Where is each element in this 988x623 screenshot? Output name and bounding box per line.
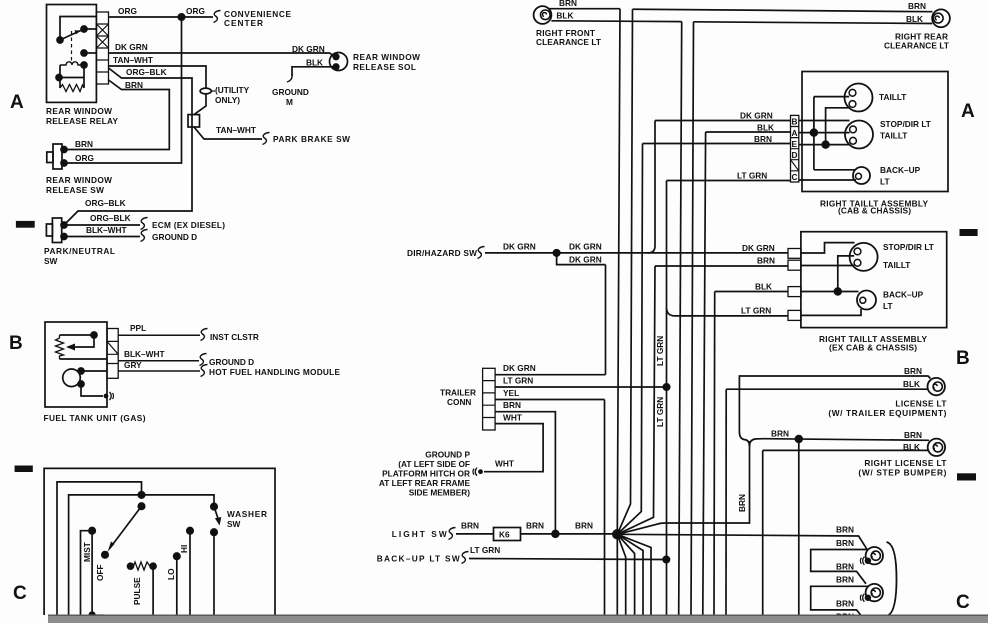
wire LT GRN vertical — [666, 181, 668, 616]
license lt bulb — [928, 378, 945, 395]
svg-text:BRN: BRN — [771, 429, 789, 439]
svg-text:GRY: GRY — [124, 360, 142, 370]
wire TAN-WHT to park brake sw — [194, 127, 262, 139]
wire DK GRN relay to release sol — [109, 52, 331, 54]
svg-text:LT GRN: LT GRN — [503, 376, 533, 386]
release sw pin ORG — [61, 160, 67, 166]
svg-text:SIDE MEMBER): SIDE MEMBER) — [409, 488, 471, 498]
svg-text:HI: HI — [179, 545, 189, 553]
wire BRN to pin E — [643, 143, 791, 145]
svg-text:LO: LO — [166, 568, 176, 580]
wire LT GRN trailer — [495, 386, 666, 388]
MIST lower wire — [92, 531, 104, 616]
relay connector strip — [96, 12, 108, 84]
svg-text:BRN: BRN — [836, 538, 854, 548]
svg-text:LT GRN: LT GRN — [737, 170, 767, 180]
svg-text:GROUND D: GROUND D — [152, 232, 197, 242]
rear window release sol bulb — [330, 53, 348, 71]
svg-text:ORG: ORG — [118, 6, 137, 16]
svg-text:LT GRN: LT GRN — [470, 545, 500, 555]
fuel tank unit box — [45, 322, 107, 407]
wire WHT trailer — [484, 424, 543, 472]
svg-text:LT GRN: LT GRN — [741, 305, 771, 315]
svg-text:(UTILITY: (UTILITY — [215, 85, 250, 95]
taillt bulb top — [845, 84, 873, 112]
wire BLK branch to bulb common — [838, 256, 854, 292]
wire PPL to inst clstr — [118, 334, 200, 336]
svg-text:BLK: BLK — [903, 442, 920, 452]
svg-text:ORG–BLK: ORG–BLK — [85, 198, 126, 208]
svg-text:CLEARANCE LT: CLEARANCE LT — [536, 37, 601, 47]
svg-text:REAR WINDOW: REAR WINDOW — [46, 175, 112, 185]
svg-text:DK GRN: DK GRN — [292, 44, 325, 54]
relay coil pin dot — [81, 50, 96, 56]
svg-text:TAN–WHT: TAN–WHT — [216, 125, 256, 135]
svg-text:BACK–UP LT SW: BACK–UP LT SW — [377, 554, 460, 564]
junction E — [822, 141, 829, 148]
wire BLK-WHT to ground D — [64, 236, 140, 238]
svg-text:BRN: BRN — [908, 1, 926, 11]
wire BLK license vertical — [725, 389, 727, 615]
svg-text:TAILLT: TAILLT — [879, 92, 906, 102]
svg-text:BRN: BRN — [836, 598, 854, 608]
utility only oval connector — [200, 88, 211, 94]
pump pin GRY — [78, 368, 84, 374]
junction LT GRN backup sw — [663, 556, 669, 562]
fuel tank connector strip — [107, 329, 118, 379]
svg-text:C: C — [792, 172, 798, 182]
cab connector strip — [791, 115, 799, 182]
svg-text:BLK: BLK — [903, 379, 920, 389]
svg-text:FUEL TANK UNIT (GAS): FUEL TANK UNIT (GAS) — [44, 413, 146, 423]
svg-text:D: D — [792, 150, 798, 160]
svg-text:DK GRN: DK GRN — [742, 243, 775, 253]
svg-text:BRN: BRN — [575, 521, 593, 531]
svg-text:ONLY): ONLY) — [215, 95, 240, 105]
contact MIST — [89, 528, 95, 534]
svg-text:ORG–BLK: ORG–BLK — [90, 213, 131, 223]
wire B to stop bulb — [799, 120, 850, 122]
svg-text:B: B — [9, 333, 23, 354]
wire A branch to taillt and backup — [814, 97, 856, 170]
splice stub down 2 — [617, 534, 634, 615]
junction BRN trailer feed — [552, 531, 559, 538]
svg-text:CLEARANCE LT: CLEARANCE LT — [884, 41, 949, 51]
wire BRN light sw — [456, 533, 494, 535]
right rear clearance lt bulb — [932, 9, 950, 27]
contact HI — [187, 528, 193, 534]
brace right of marker lamps — [887, 542, 897, 616]
wire ORG-BLK to ECM — [64, 224, 140, 226]
splice stub down 4 — [617, 534, 651, 615]
svg-text:BLK–WHT: BLK–WHT — [124, 349, 165, 359]
svg-text:BRN: BRN — [503, 400, 521, 410]
wire BRN bulb2 daisy chain — [811, 586, 868, 618]
svg-text:DK GRN: DK GRN — [740, 110, 773, 120]
svg-text:BLK: BLK — [906, 14, 923, 24]
connector ground D fuel — [200, 354, 207, 366]
connector convenience center — [214, 11, 221, 23]
rear window release sw body — [53, 144, 62, 169]
connector hot fuel module — [201, 365, 208, 377]
wire E to taillt filament — [799, 144, 850, 146]
svg-text:(EX CAB & CHASSIS): (EX CAB & CHASSIS) — [829, 343, 917, 353]
svg-text:BLK: BLK — [755, 282, 772, 292]
svg-text:RELEASE SOL: RELEASE SOL — [353, 62, 416, 72]
wire DK GRN into sol — [330, 53, 334, 57]
svg-text:M: M — [286, 97, 293, 107]
svg-text:SW: SW — [44, 256, 58, 266]
svg-text:LT: LT — [883, 301, 893, 311]
wire BRN K6 to splice — [521, 533, 618, 535]
margin bar left 1 — [16, 221, 35, 228]
wire BRN splice to marker bulb 1 — [617, 534, 867, 550]
stop/dir taillt bulb — [845, 121, 873, 149]
wire DK GRN dir/hazard vertical to trailer — [605, 265, 607, 375]
svg-text:GROUND D: GROUND D — [209, 357, 254, 367]
contact OFF — [102, 552, 108, 558]
wire DK GRN branch to trailer — [557, 253, 606, 265]
wire ORG-BLK relay down to park/neutral sw — [64, 68, 192, 225]
connector ground D — [141, 230, 148, 242]
svg-text:C: C — [13, 583, 27, 604]
wire LT GRN to pin C — [667, 180, 791, 182]
junction DK GRN — [553, 250, 559, 256]
wire TAN-WHT relay down through utility connector — [109, 66, 207, 115]
svg-text:TAN–WHT: TAN–WHT — [113, 55, 153, 65]
svg-text:A: A — [792, 128, 798, 138]
svg-text:BRN: BRN — [836, 561, 854, 571]
ground marker 2 — [860, 594, 870, 602]
wire DK GRN inside ex cab — [801, 243, 855, 253]
wire YEL vertical — [604, 400, 606, 616]
wire BRN right license vertical — [798, 439, 800, 615]
wire BLK taillt A vertical — [703, 132, 706, 615]
svg-text:BRN: BRN — [754, 134, 772, 144]
svg-text:BRN: BRN — [461, 521, 479, 531]
wire BRN pitchfork to right license lt — [750, 439, 930, 446]
svg-text:BRN: BRN — [526, 521, 544, 531]
svg-text:(CAB & CHASSIS): (CAB & CHASSIS) — [838, 206, 911, 216]
wire BLK right license — [763, 450, 928, 615]
wire BLK rear clearance vertical — [691, 22, 694, 615]
svg-text:B: B — [792, 117, 798, 127]
washer contact — [211, 529, 217, 535]
wire LT GRN branch to ex cab assembly — [667, 308, 789, 316]
wire BRN front clearance vertical to splice — [617, 9, 620, 615]
svg-text:BACK–UP: BACK–UP — [880, 165, 921, 175]
right license lt bulb — [928, 439, 945, 456]
wire BRN relay down to release sw — [64, 80, 169, 150]
wire DK GRN taillt B vertical — [648, 121, 655, 253]
svg-text:DK GRN: DK GRN — [503, 242, 536, 252]
junction wiper pivot upper — [138, 492, 144, 498]
svg-text:BLK: BLK — [306, 58, 323, 68]
sender ground wire — [60, 358, 108, 360]
rear window release relay box — [47, 5, 97, 103]
ground P symbol — [473, 468, 483, 476]
wire BRN rear clearance — [633, 9, 933, 12]
svg-text:BRN: BRN — [75, 139, 93, 149]
svg-text:GROUND: GROUND — [272, 87, 309, 97]
svg-text:WHT: WHT — [495, 459, 514, 469]
svg-text:ORG–BLK: ORG–BLK — [126, 67, 167, 77]
svg-text:HOT FUEL HANDLING MODULE: HOT FUEL HANDLING MODULE — [209, 367, 340, 377]
svg-text:AT LEFT REAR FRAME: AT LEFT REAR FRAME — [379, 478, 471, 488]
wire LT GRN inside ex cab — [801, 309, 861, 315]
svg-text:YEL: YEL — [503, 388, 519, 398]
svg-text:DK GRN: DK GRN — [569, 242, 602, 252]
park/neutral pin BLK-WHT — [61, 234, 67, 240]
pump pin ground — [78, 381, 84, 387]
connector ECM — [141, 218, 148, 230]
svg-text:BRN: BRN — [836, 574, 854, 584]
svg-text:BRN: BRN — [904, 430, 922, 440]
svg-text:DK GRN: DK GRN — [503, 363, 536, 373]
relay armature dashed link — [71, 31, 73, 62]
svg-text:(W/ TRAILER EQUIPMENT): (W/ TRAILER EQUIPMENT) — [828, 408, 946, 418]
margin bar right 2 — [957, 473, 976, 480]
svg-text:DK GRN: DK GRN — [569, 255, 602, 265]
wire BLK front clearance vertical — [679, 22, 682, 615]
connector park brake sw — [263, 133, 270, 145]
svg-text:A: A — [10, 92, 24, 113]
wire BRN bulb1 daisy chain — [811, 550, 867, 584]
svg-text:TAILLT: TAILLT — [883, 260, 910, 270]
svg-text:C: C — [956, 592, 970, 613]
svg-text:A: A — [961, 101, 975, 122]
wire BLK to pin A — [706, 131, 791, 133]
wire ORG relay to convenience center — [109, 16, 214, 18]
right taillt assembly (ex cab) box — [801, 232, 947, 328]
wire DK GRN dir/hazard main — [485, 252, 788, 254]
wire BLK front clearance — [551, 20, 681, 23]
svg-text:WHT: WHT — [503, 412, 522, 422]
svg-text:B: B — [956, 348, 970, 369]
wire A to stop bulb — [799, 132, 850, 134]
wire BLK inside ex cab — [801, 291, 859, 293]
svg-text:INST CLSTR: INST CLSTR — [210, 332, 259, 342]
PULSE resistor — [128, 562, 157, 615]
svg-text:PARK/NEUTRAL: PARK/NEUTRAL — [44, 246, 115, 256]
wire C to backup bulb — [799, 179, 856, 181]
wire BLK rear clearance — [694, 22, 933, 24]
svg-text:GROUND P: GROUND P — [425, 450, 470, 460]
wire DK GRN to pin B — [655, 120, 791, 122]
wire BLK ex cab vertical — [713, 292, 716, 616]
wire BRN pitchfork to license lt — [739, 376, 930, 446]
wire pump to ground — [81, 384, 103, 396]
contact LO — [174, 553, 180, 559]
svg-text:PULSE: PULSE — [132, 577, 142, 605]
wire LT GRN back-up lt sw — [469, 559, 666, 560]
wire GRY to hot fuel module — [118, 370, 200, 372]
svg-text:BRN: BRN — [836, 525, 854, 535]
svg-text:STOP/DIR LT: STOP/DIR LT — [880, 119, 931, 129]
marker bulb 2 — [866, 584, 883, 601]
wire BLK license lt — [726, 388, 927, 390]
svg-text:ECM (EX DIESEL): ECM (EX DIESEL) — [152, 220, 225, 230]
ex cab connector cells — [788, 249, 801, 321]
fuel tank case ground — [104, 392, 114, 400]
wire BRN ex cab vertical — [617, 266, 655, 534]
MIST feed — [81, 531, 93, 615]
junction BRN right license — [795, 436, 802, 443]
park/neutral sw body — [52, 218, 61, 243]
svg-text:PARK BRAKE SW: PARK BRAKE SW — [273, 134, 350, 144]
release sw pin BRN — [61, 147, 67, 153]
wire BRN inside ex cab — [801, 265, 854, 267]
svg-text:DK GRN: DK GRN — [115, 42, 148, 52]
svg-text:STOP/DIR LT: STOP/DIR LT — [883, 242, 934, 252]
wiper/washer switch box — [44, 468, 275, 615]
svg-text:(W/ STEP BUMPER): (W/ STEP BUMPER) — [858, 468, 946, 478]
fuse K6 — [494, 528, 521, 541]
backup lt bulb — [853, 167, 870, 184]
wire BRN taillt E vertical — [617, 144, 642, 535]
svg-text:DIR/HAZARD SW: DIR/HAZARD SW — [407, 248, 477, 258]
wire YEL trailer — [495, 399, 604, 401]
relay resistor — [60, 85, 84, 92]
svg-text:LIGHT SW: LIGHT SW — [392, 529, 447, 539]
svg-text:RELEASE SW: RELEASE SW — [46, 185, 104, 195]
wire BRN front clearance — [548, 8, 620, 10]
svg-text:BRN: BRN — [904, 366, 922, 376]
splice junction BRN — [613, 530, 622, 539]
svg-text:PPL: PPL — [130, 323, 146, 333]
park/neutral pin ORG-BLK — [61, 222, 67, 228]
margin bar left 2 — [15, 466, 33, 473]
splice branch BRN to license lights — [617, 441, 749, 534]
svg-text:REAR WINDOW: REAR WINDOW — [353, 52, 420, 62]
svg-text:WASHER: WASHER — [227, 509, 267, 519]
wiper feed wire 2 — [69, 495, 214, 615]
svg-text:PLATFORM HITCH OR: PLATFORM HITCH OR — [382, 469, 470, 479]
wire DK GRN trailer — [495, 374, 605, 376]
stop/dir taillt bulb ex cab — [850, 243, 878, 271]
ground M hook — [287, 74, 292, 82]
scan edge bar — [48, 616, 988, 623]
sender feed wire — [60, 334, 95, 336]
right front clearance lt bulb — [534, 6, 552, 24]
svg-text:(AT LEFT SIDE OF: (AT LEFT SIDE OF — [398, 459, 470, 469]
svg-text:TAILLT: TAILLT — [880, 131, 907, 141]
svg-text:CENTER: CENTER — [224, 18, 263, 28]
backup bulb ex cab — [857, 291, 876, 310]
wiper pivot lower — [138, 503, 144, 509]
wiper feed wire 1 — [57, 482, 142, 615]
wire BLK-WHT to ground D — [118, 360, 199, 362]
connector light sw — [449, 528, 456, 540]
svg-text:BRN: BRN — [737, 494, 747, 512]
wire pump to GRY cell — [81, 370, 107, 372]
right taillt assembly (cab) box — [802, 72, 948, 192]
svg-text:CONN: CONN — [447, 397, 471, 407]
svg-text:MIST: MIST — [82, 542, 92, 562]
svg-text:LT GRN: LT GRN — [655, 397, 665, 427]
wire E branch to top taillt — [826, 108, 850, 145]
fuel pump — [63, 369, 81, 387]
splice stub down 1 — [617, 534, 625, 615]
svg-text:ORG: ORG — [186, 6, 205, 16]
svg-text:BLK–WHT: BLK–WHT — [86, 225, 127, 235]
svg-text:OFF: OFF — [95, 564, 105, 581]
ground marker 1 — [860, 557, 870, 565]
svg-text:TRAILER: TRAILER — [440, 387, 476, 397]
junction BLK ex cab — [834, 288, 841, 295]
wire BRN rear clearance vertical — [617, 9, 632, 534]
splice stub down 3 — [617, 534, 643, 615]
junction LT GRN trailer — [663, 384, 669, 390]
svg-text:K6: K6 — [499, 529, 510, 539]
inline connector on TAN-WHT — [188, 115, 200, 127]
sender wiper arrow — [68, 335, 94, 347]
svg-text:BLK: BLK — [757, 122, 774, 132]
junction ORG — [178, 14, 184, 20]
washer sw pivot — [211, 503, 217, 509]
svg-text:RELEASE RELAY: RELEASE RELAY — [46, 116, 118, 126]
svg-text:E: E — [792, 139, 798, 149]
relay coil — [56, 62, 87, 88]
svg-text:REAR WINDOW: REAR WINDOW — [46, 106, 112, 116]
margin bar right 1 — [960, 229, 978, 236]
svg-text:ORG: ORG — [75, 153, 94, 163]
svg-text:SW: SW — [227, 519, 241, 529]
svg-text:LT GRN: LT GRN — [655, 336, 665, 366]
relay internal switch — [57, 17, 96, 44]
junction A — [811, 129, 818, 136]
svg-text:BRN: BRN — [125, 80, 143, 90]
wiper switch arm — [110, 506, 142, 548]
trailer conn strip — [483, 368, 496, 430]
wire BRN trailer — [495, 412, 555, 534]
connector dir/hazard sw — [478, 247, 485, 259]
wire ORG release sw up to junction — [64, 17, 182, 163]
connector back-up lt sw — [462, 552, 469, 564]
fuel sender resistor — [56, 335, 64, 359]
svg-text:BLK: BLK — [556, 11, 573, 21]
svg-text:BACK–UP: BACK–UP — [883, 290, 924, 300]
wire BLK to ex cab — [715, 291, 788, 293]
wire BRN to ex cab — [655, 265, 788, 267]
svg-text:BRN: BRN — [757, 256, 775, 266]
washer sw arm — [214, 507, 218, 519]
connector inst clstr — [201, 329, 208, 341]
wire BLK sol to ground M — [292, 67, 334, 76]
svg-text:LT: LT — [880, 177, 890, 187]
marker bulb 1 — [866, 547, 883, 564]
svg-text:BRN: BRN — [559, 0, 577, 8]
